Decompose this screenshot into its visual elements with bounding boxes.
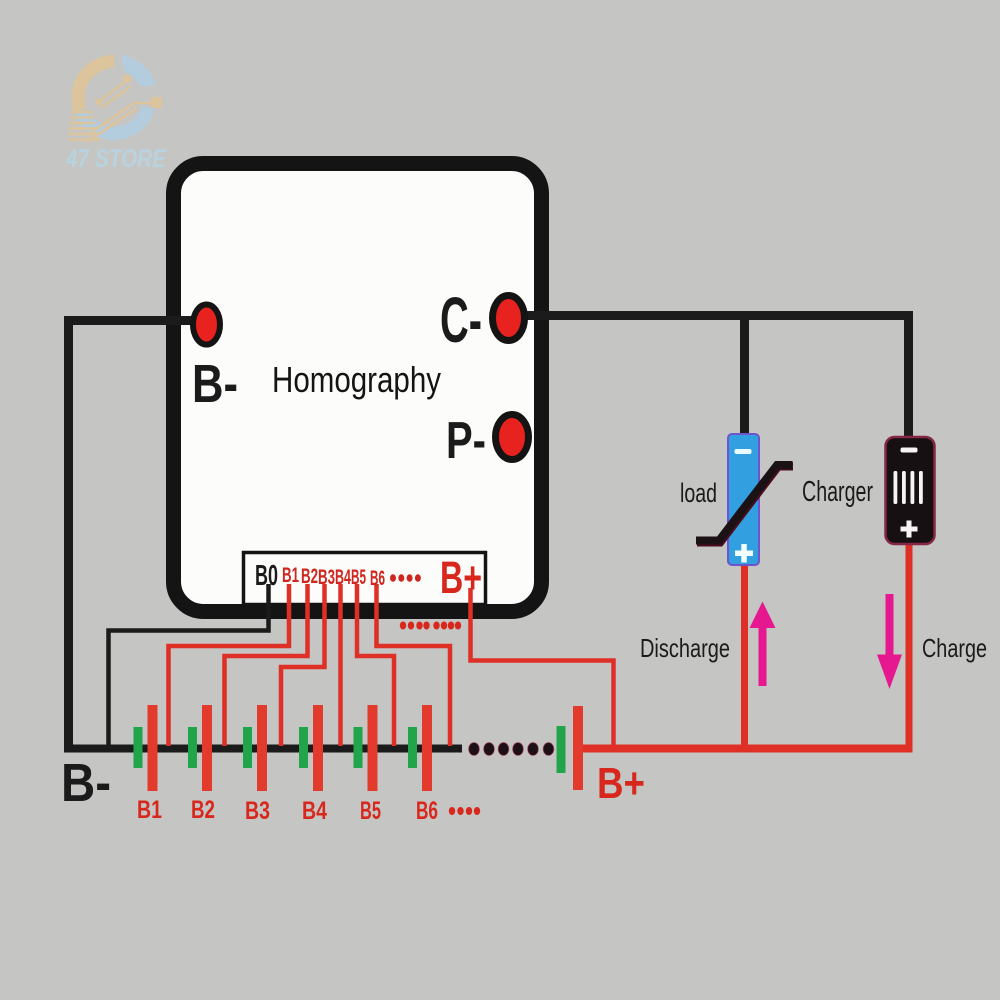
- svg-text:B4: B4: [335, 566, 351, 589]
- charge arrow: [877, 594, 902, 689]
- series dots on bus: [469, 743, 554, 756]
- last cell positive plate: [573, 706, 583, 790]
- battery bus black: [64, 745, 462, 753]
- cell 2 positive plate: [202, 705, 212, 791]
- svg-text:B6: B6: [416, 797, 438, 825]
- charger minus mark: [901, 448, 918, 453]
- load body: [728, 434, 759, 565]
- wire sense B4: [338, 584, 343, 746]
- wire B+ from connector to bus: [471, 588, 614, 746]
- cell 1 negative plate: [134, 727, 143, 768]
- last cell negative plate: [557, 726, 566, 773]
- svg-text:B5: B5: [360, 797, 381, 825]
- cell 6 positive plate: [422, 705, 432, 791]
- svg-text:B-: B-: [61, 753, 111, 813]
- svg-text:load: load: [680, 478, 717, 508]
- svg-text:Charge: Charge: [922, 633, 987, 663]
- wire load positive to bus: [741, 560, 748, 748]
- cell 1 positive plate: [148, 705, 158, 791]
- load plus mark: [735, 544, 753, 563]
- load minus mark: [735, 449, 752, 454]
- cell 5 positive plate: [368, 705, 378, 791]
- svg-text:B4: B4: [302, 797, 327, 825]
- switch (discharge MOSFET): [697, 466, 793, 542]
- wire B0 sense to battery negative: [109, 584, 269, 746]
- cell 5 negative plate: [354, 727, 363, 768]
- wire branch to load: [740, 316, 749, 437]
- wire B- terminal to left rail: [69, 321, 207, 749]
- svg-text:B+: B+: [597, 759, 645, 808]
- wire charger positive to bus: [906, 540, 913, 748]
- connector strip: [244, 553, 486, 605]
- dots row below board: [400, 622, 461, 630]
- wire sense B6: [377, 584, 451, 746]
- svg-text:B1: B1: [137, 796, 162, 824]
- svg-text:B2: B2: [191, 796, 215, 824]
- svg-text:B0: B0: [255, 560, 278, 592]
- charger body: [886, 437, 935, 544]
- wire C- terminal to top-right rail: [508, 316, 909, 441]
- cell 3 negative plate: [243, 727, 252, 768]
- wire sense B2: [225, 584, 308, 746]
- svg-text:P-: P-: [446, 412, 486, 470]
- cell 4 positive plate: [313, 705, 323, 791]
- svg-text:B2: B2: [301, 565, 318, 588]
- svg-text:B3: B3: [318, 566, 335, 589]
- cell 4 negative plate: [299, 727, 308, 768]
- BMS board: [174, 164, 542, 612]
- wire sense B1: [169, 584, 290, 746]
- pin dots: [390, 574, 421, 582]
- battery bus red B+ side: [578, 745, 913, 753]
- discharge arrow: [750, 602, 776, 687]
- wire sense B3: [281, 584, 325, 746]
- cell 2 negative plate: [188, 727, 197, 768]
- wire sense B5: [357, 584, 394, 746]
- svg-text:Discharge: Discharge: [640, 633, 730, 663]
- svg-text:B1: B1: [282, 564, 299, 587]
- terminal P-: [496, 415, 529, 460]
- cell 6 negative plate: [408, 727, 417, 768]
- charger plus mark: [901, 521, 918, 538]
- svg-text:B3: B3: [245, 797, 270, 825]
- svg-text:B5: B5: [351, 566, 366, 589]
- svg-text:Charger: Charger: [802, 476, 873, 508]
- svg-text:C-: C-: [440, 284, 482, 356]
- cell 3 positive plate: [257, 705, 267, 791]
- terminal B-: [193, 305, 220, 345]
- svg-text:47 STORE: 47 STORE: [65, 145, 167, 173]
- svg-text:B6: B6: [370, 567, 385, 590]
- svg-text:B+: B+: [440, 552, 482, 603]
- cell dots: [449, 807, 480, 815]
- terminal C-: [493, 296, 525, 341]
- charger grille bars: [894, 471, 923, 504]
- watermark logo 47 STORE: [65, 60, 167, 173]
- svg-text:B-: B-: [192, 354, 238, 414]
- svg-text:Homography: Homography: [272, 359, 441, 400]
